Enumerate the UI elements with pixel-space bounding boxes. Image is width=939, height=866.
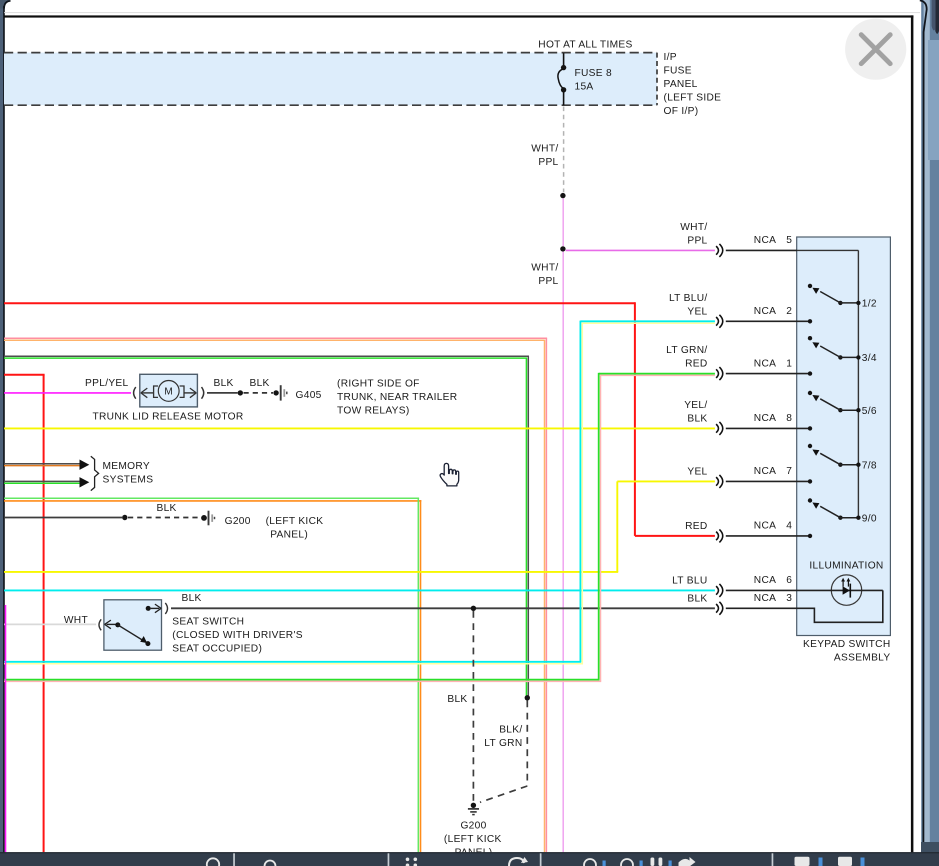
switch 3/4 <box>808 336 812 340</box>
wire RED horizontal upper <box>4 302 635 304</box>
junction node <box>122 515 127 520</box>
wire through LED <box>726 589 883 591</box>
fuse F8 15A <box>563 53 565 66</box>
wire BLK solid <box>4 517 122 519</box>
wire YEL to NCA7 <box>617 480 715 482</box>
svg-text:BLK: BLK <box>687 414 707 425</box>
wire NCA7 to contact <box>726 480 810 482</box>
svg-text:SEAT OCCUPIED): SEAT OCCUPIED) <box>172 644 262 655</box>
close button <box>845 19 906 80</box>
wire GRY/GRN memory 2 <box>4 480 80 482</box>
svg-text:(LEFT KICK: (LEFT KICK <box>266 516 324 527</box>
svg-text:BLK: BLK <box>447 694 467 705</box>
svg-text:WHT/: WHT/ <box>531 144 558 155</box>
LED illumination lamp <box>831 575 861 605</box>
svg-text:BLK/: BLK/ <box>499 725 522 736</box>
svg-text:3/4: 3/4 <box>862 353 877 364</box>
wire NCA2 to contact <box>726 320 810 322</box>
card top-left rounded corner <box>0 0 11 9</box>
seat switch top contact and arrow out <box>146 606 151 611</box>
svg-text:WHT: WHT <box>64 615 88 626</box>
schematic frame right border <box>911 15 914 852</box>
wire RED vertical to NCA4 <box>634 302 636 536</box>
svg-text:NCA: NCA <box>754 575 776 586</box>
svg-text:PANEL): PANEL) <box>270 529 308 540</box>
switch 7/8 <box>808 444 812 448</box>
svg-text:MEMORY: MEMORY <box>103 461 150 472</box>
svg-text:8: 8 <box>786 413 792 424</box>
seat switch box <box>104 600 162 650</box>
svg-text:YEL/: YEL/ <box>684 400 707 411</box>
switch blade with arrowhead <box>118 625 144 641</box>
svg-text:15A: 15A <box>575 81 594 92</box>
wire YEL/BLK horizontal <box>4 427 715 429</box>
svg-text:6: 6 <box>786 575 792 586</box>
wire YEL vertical <box>616 481 618 572</box>
bracket ) <box>202 387 204 399</box>
wire NCA4 to contact <box>726 535 810 537</box>
hot-at-all-times bus band <box>4 53 657 106</box>
svg-text:(LEFT KICK: (LEFT KICK <box>444 834 502 845</box>
wire GRY/ORG memory 1 <box>4 463 80 465</box>
svg-text:RED: RED <box>685 521 707 532</box>
svg-text:5/6: 5/6 <box>862 406 877 417</box>
svg-text:FUSE: FUSE <box>664 66 692 77</box>
ground G200 bottom symbol <box>471 803 476 808</box>
wire BLK from seat switch <box>171 607 715 609</box>
wire WHT <box>4 623 96 625</box>
svg-text:1: 1 <box>786 358 792 369</box>
svg-text:G200: G200 <box>460 821 486 832</box>
svg-text:3: 3 <box>786 593 792 604</box>
svg-text:4: 4 <box>786 521 792 532</box>
wire LT BLU/YEL to NCA2 <box>580 320 715 322</box>
svg-text:PPL: PPL <box>538 276 558 287</box>
arrow memory 2 <box>80 477 90 487</box>
wire dashed gray below fuse <box>563 107 565 193</box>
svg-text:5: 5 <box>786 235 792 246</box>
svg-text:BLK: BLK <box>250 378 270 389</box>
right background sliver <box>921 0 939 866</box>
wire RED lower-left horizontal <box>4 374 45 376</box>
toolbar icons (clipped tops) <box>207 858 219 866</box>
svg-text:OF I/P): OF I/P) <box>664 106 699 117</box>
svg-text:WHT/: WHT/ <box>680 222 707 233</box>
card right border curve <box>920 0 927 866</box>
bottom toolbar <box>0 852 939 866</box>
svg-text:7/8: 7/8 <box>862 460 877 471</box>
toolbar separators <box>233 853 235 866</box>
wire NCA5 to bus <box>726 249 797 251</box>
svg-text:G405: G405 <box>296 390 322 401</box>
wire NCA1 to contact <box>726 373 810 375</box>
wire WHT/PPL violet vertical <box>562 198 564 246</box>
brace } <box>91 456 99 490</box>
wire WHT/PPL horizontal to keypad <box>566 249 715 251</box>
mouse hand cursor <box>440 463 459 486</box>
svg-text:NCA: NCA <box>754 413 776 424</box>
svg-text:LT GRN/: LT GRN/ <box>666 345 707 356</box>
svg-text:NCA: NCA <box>754 306 776 317</box>
wire LT GRN/ORG pair horizontal <box>4 497 419 499</box>
wire BLK/LT GRN dashed vertical <box>526 701 528 787</box>
svg-text:I/P: I/P <box>664 52 677 63</box>
svg-text:ILLUMINATION: ILLUMINATION <box>809 560 883 571</box>
keypad switch assembly box <box>797 237 891 636</box>
svg-text:PPL: PPL <box>538 157 558 168</box>
LED arrows <box>842 580 844 586</box>
wire LT GRN/ORG pair vertical <box>417 498 419 852</box>
wire LT BLU/YEL pair horizontal lower <box>4 661 581 663</box>
junction node GRY/GRN pair end <box>525 695 530 700</box>
junction node <box>560 246 565 251</box>
wire NCA8 to contact <box>726 427 810 429</box>
seat switch internals: WHT arrow in <box>107 623 116 625</box>
bracket ) seat switch <box>165 603 167 614</box>
connector NCA 2 <box>716 317 718 326</box>
wire LT BLU horizontal <box>4 589 715 591</box>
wire BLK dashed vertical <box>472 611 474 803</box>
ground G405 symbol <box>280 385 282 400</box>
connector NCA 6 <box>716 586 718 595</box>
svg-text:YEL: YEL <box>687 306 707 317</box>
svg-text:TRUNK, NEAR TRAILER: TRUNK, NEAR TRAILER <box>337 392 457 403</box>
svg-text:PPL: PPL <box>687 236 707 247</box>
wire BLK dashed <box>128 517 199 519</box>
connector NCA 4 <box>716 532 718 541</box>
svg-text:TRUNK LID RELEASE MOTOR: TRUNK LID RELEASE MOTOR <box>93 411 244 422</box>
svg-text:PANEL: PANEL <box>664 79 698 90</box>
wire GRY/GRN pair vertical <box>527 356 529 696</box>
svg-text:NCA: NCA <box>754 521 776 532</box>
switch 5/6 <box>808 391 812 395</box>
switch 1/2 <box>808 284 812 288</box>
motor symbol arrows and M circle <box>141 392 153 394</box>
junction node BLK <box>471 606 476 611</box>
svg-text:(RIGHT SIDE OF: (RIGHT SIDE OF <box>337 379 420 390</box>
svg-text:FUSE 8: FUSE 8 <box>575 68 613 79</box>
wire LT GRN/RED pair vertical <box>598 373 600 680</box>
svg-text:BLK: BLK <box>214 378 234 389</box>
svg-text:LT BLU/: LT BLU/ <box>669 293 708 304</box>
svg-text:ASSEMBLY: ASSEMBLY <box>834 653 891 664</box>
svg-text:(LEFT SIDE: (LEFT SIDE <box>664 93 722 104</box>
bus wire inside keypad <box>797 249 859 251</box>
wire RED left vertical <box>43 375 45 853</box>
wire GRY/GRN pair horizontal <box>4 355 529 357</box>
connector NCA 3 <box>716 604 718 613</box>
wire NCA3 stepped path to LED <box>726 590 883 622</box>
svg-text:NCA: NCA <box>754 358 776 369</box>
svg-text:(CLOSED WITH DRIVER'S: (CLOSED WITH DRIVER'S <box>172 630 303 641</box>
bracket ( <box>134 387 136 399</box>
wire PNK/ORG pair horizontal <box>4 337 547 339</box>
svg-text:PPL/YEL: PPL/YEL <box>85 378 128 389</box>
svg-text:NCA: NCA <box>754 466 776 477</box>
wire YEL lower horizontal <box>4 571 618 573</box>
junction node <box>560 193 565 198</box>
trunk lid release motor M1 box <box>140 374 198 407</box>
connector NCA 1 <box>716 369 718 378</box>
wire LT GRN/RED to NCA1 <box>599 373 715 375</box>
svg-text:G200: G200 <box>225 516 251 527</box>
switch 9/0 <box>808 498 812 502</box>
svg-text:BLK: BLK <box>182 593 202 604</box>
wire BLK/LT GRN dashed diagonal <box>480 786 527 802</box>
svg-text:NCA: NCA <box>754 593 776 604</box>
svg-text:WHT/: WHT/ <box>531 263 558 274</box>
wire PPL vertical left edge <box>5 605 7 852</box>
svg-text:1/2: 1/2 <box>862 299 877 310</box>
bracket ( seat switch <box>99 619 101 630</box>
card left black border <box>3 6 5 866</box>
junction node <box>238 390 243 395</box>
wire BLK from motor <box>207 392 238 394</box>
connector NCA 8 <box>716 424 718 433</box>
dark top-right corner <box>935 0 939 34</box>
wire LT BLU/YEL pair vertical <box>579 321 581 662</box>
wire BLK dashed to G405 <box>244 392 274 394</box>
wire LT GRN/RED pair horizontal lower <box>4 679 600 681</box>
wire PNK/ORG pair vertical <box>545 338 547 852</box>
arrow memory 1 <box>80 460 90 470</box>
svg-text:7: 7 <box>786 466 792 477</box>
svg-text:SYSTEMS: SYSTEMS <box>103 474 154 485</box>
svg-text:9/0: 9/0 <box>862 513 877 524</box>
schematic frame top border <box>4 15 913 17</box>
svg-text:BLK: BLK <box>157 503 177 514</box>
svg-text:NCA: NCA <box>754 235 776 246</box>
svg-text:LT BLU: LT BLU <box>672 576 707 587</box>
left viewer edge stripe <box>0 0 3 866</box>
svg-text:BLK: BLK <box>687 594 707 605</box>
svg-text:HOT AT ALL TIMES: HOT AT ALL TIMES <box>538 39 632 50</box>
svg-text:M: M <box>164 387 173 398</box>
wire PPL/YEL magenta <box>4 392 131 394</box>
svg-text:RED: RED <box>685 359 707 370</box>
svg-text:YEL: YEL <box>687 467 707 478</box>
svg-text:KEYPAD SWITCH: KEYPAD SWITCH <box>803 639 890 650</box>
svg-text:TOW RELAYS): TOW RELAYS) <box>337 406 410 417</box>
ground G200 symbol left <box>201 515 207 521</box>
svg-text:SEAT SWITCH: SEAT SWITCH <box>172 617 244 628</box>
connector NCA 5 <box>716 246 718 255</box>
faint top hairline <box>4 11 920 14</box>
svg-text:2: 2 <box>786 306 792 317</box>
svg-text:LT GRN: LT GRN <box>484 738 522 749</box>
connector NCA 7 <box>716 477 718 486</box>
